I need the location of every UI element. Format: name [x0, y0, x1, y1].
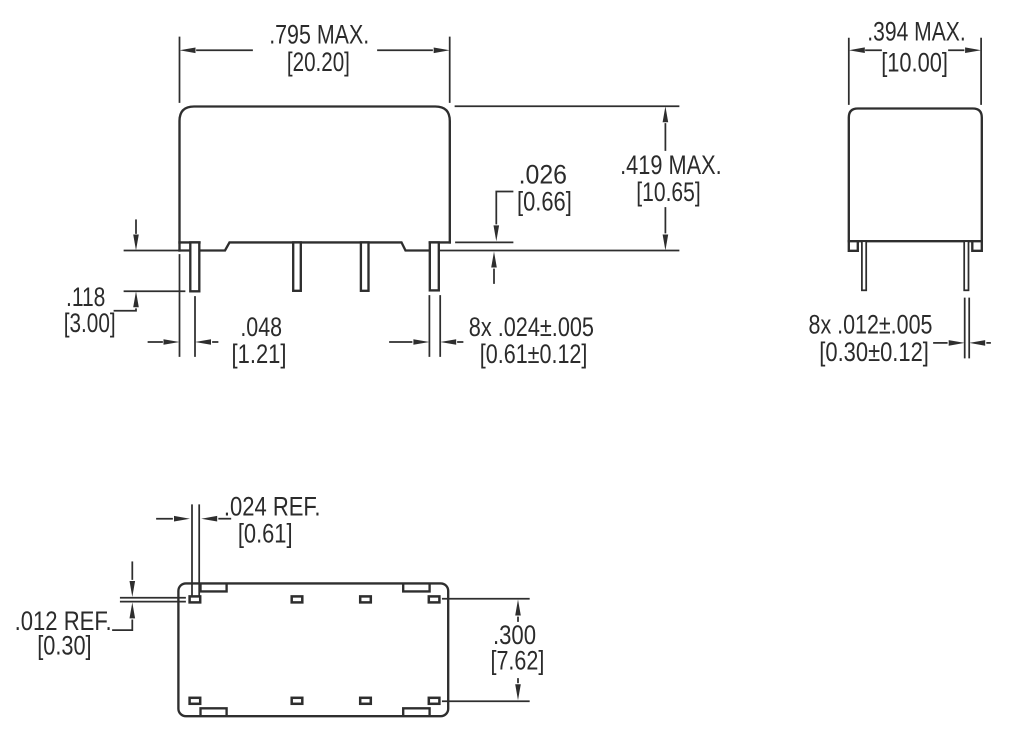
up arrow and leader of .118 dimension: [115, 309, 137, 311]
dimension line .419 vertical upper segment with up arrow: [664, 124, 666, 150]
svg-text:.419 MAX.: .419 MAX.: [620, 150, 722, 180]
pin 4 (front view): [430, 242, 439, 290]
relay body outline (front view, top-left): [180, 107, 450, 251]
right arrow of .048 dimension: [213, 341, 218, 343]
extension line top reference of .419 dimension: [456, 105, 679, 107]
svg-text:8x .024±.005: 8x .024±.005: [469, 312, 594, 342]
relay body outline (bottom view): [178, 583, 448, 716]
right pin (side view): [964, 241, 968, 290]
pin 3 (front view): [361, 242, 369, 290]
svg-text:.048: .048: [240, 312, 282, 342]
svg-text:[0.61]: [0.61]: [238, 519, 293, 549]
extension line left of dimension .795: [179, 38, 181, 103]
svg-text:8x .012±.005: 8x .012±.005: [809, 310, 933, 340]
extension line right of 8x .024 dimension: [439, 296, 441, 356]
notch top-left (bottom view): [201, 585, 227, 592]
up arrow and leader of .012 REF dimension: [113, 620, 132, 630]
pad pin 7 (bottom view): [360, 698, 371, 704]
body bottom profile with standoff steps (front view): [180, 242, 431, 250]
extension line standoff reference y=242.4 of .026 dimension: [456, 241, 513, 243]
down arrow of .118 dimension: [135, 220, 137, 233]
left foot (side view): [849, 241, 858, 251]
extension line left of 8x .012 dimension: [964, 299, 966, 358]
pin pocket line right (front view): [430, 241, 450, 243]
svg-text:.795 MAX.: .795 MAX.: [269, 20, 369, 50]
svg-text:[1.21]: [1.21]: [232, 339, 287, 369]
extension line top of .300 dimension: [443, 598, 529, 600]
extension line left of dimension .394: [848, 39, 850, 104]
svg-text:[0.61±0.12]: [0.61±0.12]: [480, 339, 588, 369]
left arrow of .048 dimension: [149, 341, 163, 343]
pin 1 projection lines (bottom view): [192, 505, 199, 596]
relay body outline (side view, top-right): [849, 109, 982, 242]
extension line right of dimension .394: [980, 39, 982, 104]
up arrow of .300 dimension: [517, 618, 519, 622]
pad pin 3 (bottom view): [360, 596, 371, 602]
svg-text:[0.30]: [0.30]: [37, 631, 91, 661]
dimension line .795 right segment with arrow: [378, 49, 432, 51]
right arrow of 8x .024 dimension: [458, 341, 463, 343]
pin 1 side flat projection lines (bottom view left): [121, 598, 185, 602]
pad pin 8 (bottom view): [429, 698, 440, 704]
pin pocket line left (front view): [180, 241, 200, 243]
svg-text:[7.62]: [7.62]: [491, 646, 545, 676]
svg-text:[10.00]: [10.00]: [881, 48, 948, 78]
left arrow of 8x .024 dimension: [390, 341, 412, 343]
dimension line .394 left segment with arrow: [866, 49, 881, 51]
notch top-right (bottom view): [403, 585, 429, 592]
notch bottom-left (bottom view): [201, 708, 227, 715]
extension line right of dimension .795: [449, 38, 451, 103]
pad pin 6 (bottom view): [292, 698, 303, 704]
leader of .026 dimension with down arrow: [496, 192, 512, 224]
svg-text:[0.66]: [0.66]: [517, 187, 572, 217]
dimension line .795 left segment with arrow: [197, 49, 252, 51]
svg-text:[10.65]: [10.65]: [636, 177, 700, 207]
extension line right of 8x .012 dimension: [968, 299, 970, 358]
pad pin 1 (bottom view): [190, 596, 201, 602]
svg-text:.026: .026: [519, 160, 567, 190]
extension line pin centre of .048 dimension: [194, 297, 196, 356]
extension line bottom of .300 dimension: [443, 700, 529, 702]
svg-text:[20.20]: [20.20]: [287, 47, 350, 77]
extension line pin tip reference of .118 dimension: [125, 290, 185, 292]
pad pin 4 (bottom view): [429, 596, 440, 602]
pad pin 2 (bottom view): [292, 596, 303, 602]
up arrow of .026 dimension: [493, 270, 495, 284]
left arrow of .024 REF dimension: [157, 518, 172, 520]
svg-text:.024 REF.: .024 REF.: [224, 492, 321, 522]
right foot (side view): [972, 241, 982, 251]
extension line left of 8x .024 dimension: [428, 296, 430, 356]
left pin (side view): [862, 241, 866, 290]
left arrow of 8x .012 dimension: [934, 342, 947, 344]
svg-text:.394 MAX.: .394 MAX.: [867, 17, 965, 47]
dimension line .394 right segment with arrow: [949, 49, 964, 51]
pad pin 5 (bottom view): [190, 698, 201, 704]
extension line body edge of .048 dimension: [179, 255, 181, 356]
extension line upper reference of .118 dimension: [125, 250, 180, 252]
pin 1 (front view): [190, 242, 199, 291]
notch bottom-right (bottom view): [403, 708, 429, 715]
extension line, lip bottom reference y=250.5: [440, 250, 679, 252]
pin 2 (front view): [293, 242, 301, 290]
svg-text:[0.30±0.12]: [0.30±0.12]: [819, 337, 929, 367]
down arrow of .012 REF dimension: [131, 562, 133, 579]
svg-text:[3.00]: [3.00]: [64, 308, 116, 338]
right arrow of .024 REF dimension: [219, 518, 230, 520]
dimension line .419 vertical lower segment with down arrow: [664, 208, 666, 233]
right arrow of 8x .012 dimension: [987, 342, 990, 344]
down arrow of .300 dimension: [517, 679, 519, 682]
